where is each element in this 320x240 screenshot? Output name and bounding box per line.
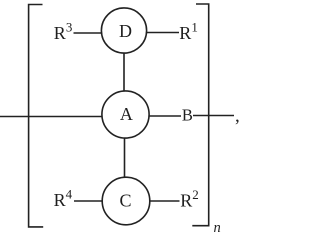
wire: bond A to B — [125, 115, 181, 117]
wire: bond R3 to D — [74, 32, 125, 34]
svg-text:C: C — [120, 190, 132, 210]
wire: vertical bond D to A — [123, 31, 125, 114]
wire: bond B to right chain end — [193, 115, 234, 117]
right repeat bracket — [192, 4, 208, 226]
left repeat bracket — [29, 5, 44, 227]
svg-text:D: D — [119, 21, 132, 41]
svg-text:B: B — [182, 105, 193, 124]
wire: bond R4 to C — [74, 200, 126, 202]
svg-text:A: A — [120, 104, 133, 124]
svg-text:n: n — [214, 220, 221, 233]
wire: bond C to R2 — [126, 200, 180, 202]
wire: chain bond entering from left edge to node A — [0, 116, 125, 118]
svg-text:,: , — [235, 105, 240, 126]
wire: bond D to R1 — [124, 32, 179, 34]
node C: circle — [102, 177, 150, 225]
node D: circle — [101, 8, 146, 53]
wire: vertical bond A to C — [124, 115, 126, 201]
node A: circle — [102, 91, 149, 138]
